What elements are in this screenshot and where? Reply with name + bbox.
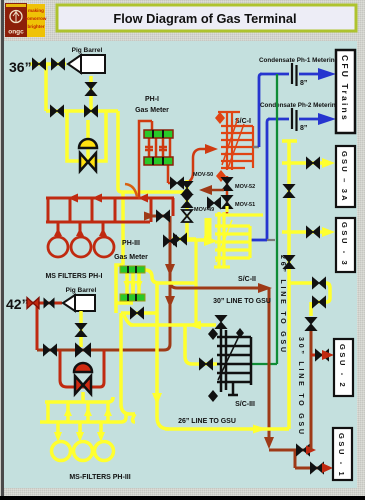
wire manifold riser c xyxy=(91,198,94,222)
wire SC2 outlet blue xyxy=(251,239,267,242)
SC3 top right tick xyxy=(236,328,244,338)
filter vessel F2 xyxy=(71,237,91,257)
valve GSU2 feed xyxy=(316,350,329,361)
arrow into GSU1 xyxy=(322,463,333,473)
arrow up filter3 b xyxy=(84,407,92,416)
wire 30in takeoff curve xyxy=(170,281,262,288)
wire GSU3 branch xyxy=(282,230,322,234)
valve on line B xyxy=(157,211,170,222)
wire manifold riser b xyxy=(69,198,72,222)
valve on 30in bottom run xyxy=(297,445,310,456)
wire meter3 frame left xyxy=(116,265,123,313)
svg-text:GSU – 3A: GSU – 3A xyxy=(340,151,349,203)
wire filter3 header 1 xyxy=(45,397,113,402)
SC3 bottom stub xyxy=(228,382,238,395)
svg-text:MS-FILTERS PH-III: MS-FILTERS PH-III xyxy=(69,474,130,481)
meter3 bar upper xyxy=(120,266,145,273)
SC3 bottom diamond xyxy=(208,390,218,402)
wire pig barrel drop leg xyxy=(89,76,93,111)
SC2 diagonals xyxy=(216,220,232,262)
SC2 drop to line xyxy=(194,240,197,325)
valve 26in riser upper xyxy=(284,185,295,198)
valve on barrel drop xyxy=(76,324,87,337)
svg-text:CFU Trains: CFU Trains xyxy=(340,55,350,122)
wire 36in inlet header xyxy=(30,62,66,66)
SC2 bottom bar xyxy=(214,265,230,268)
arrow down riser lower xyxy=(165,296,175,308)
arrow up filter3 c xyxy=(104,407,112,416)
svg-text:36”: 36” xyxy=(9,59,32,75)
wire filter3 riser a xyxy=(46,402,50,422)
valve meter outlet xyxy=(171,178,184,189)
wire filter3 drop a xyxy=(56,422,60,436)
wire drop to PH-3 header xyxy=(118,111,190,192)
filter vessel F4 xyxy=(52,442,71,461)
SC2 rungs xyxy=(215,226,250,258)
svg-text:MOV-49: MOV-49 xyxy=(194,207,214,213)
wire 26in bottom run xyxy=(165,427,287,431)
GSU-2 box xyxy=(334,339,353,396)
wire MOV string yellow riser xyxy=(172,180,206,240)
svg-text:30” LINE TO GSU: 30” LINE TO GSU xyxy=(297,337,304,437)
ONGC logo red box xyxy=(5,3,27,37)
wire meter tube a xyxy=(148,138,151,157)
bottom black bar xyxy=(0,496,365,500)
svg-text:Condensate Ph-2 Metering: Condensate Ph-2 Metering xyxy=(260,102,340,109)
valve V3 on barrel drop xyxy=(86,83,97,96)
SC1 right bar xyxy=(252,126,254,168)
green line S/C-III outlet to Ph1 xyxy=(251,74,277,364)
arrow down mid riser xyxy=(165,264,175,276)
svg-text:MOV-51: MOV-51 xyxy=(235,202,255,208)
wire 42in drop xyxy=(36,303,39,350)
wire main drop to 26 line xyxy=(157,284,169,429)
arrow down filter3 b xyxy=(76,432,84,442)
SC2 rail left xyxy=(217,212,220,267)
valve MOV-50 xyxy=(182,182,193,195)
arrow Ph1 to CFU xyxy=(318,68,336,80)
wire cv2 outlet drop xyxy=(81,392,85,402)
valve on bypass header xyxy=(131,308,144,319)
svg-text:S/C-II: S/C-II xyxy=(238,276,256,283)
wire GSU2 branch red xyxy=(311,354,323,357)
arrow into SC2 inlet xyxy=(204,236,218,246)
svg-text:PH-I: PH-I xyxy=(145,96,159,103)
wire GSU2 zigzag xyxy=(289,283,330,316)
arrow on line B xyxy=(144,212,156,221)
svg-text:30” LINE TO GSU: 30” LINE TO GSU xyxy=(213,298,271,305)
wire SC2 outlet gray stub xyxy=(267,239,275,241)
wire corner into valve line B xyxy=(146,198,173,222)
arrow left on header line1 third xyxy=(138,194,148,203)
wire blue SC1 outlet stub xyxy=(253,146,259,149)
wire meter inlet top xyxy=(151,121,154,130)
svg-text:brighter: brighter xyxy=(27,24,44,29)
valve MOV-51 xyxy=(222,196,233,209)
wire riser from first valve branch xyxy=(44,64,48,111)
valve SC3 side feed xyxy=(200,359,213,370)
wire Ph1 riser xyxy=(259,74,262,147)
valve V1 xyxy=(33,59,46,70)
valve on riser xyxy=(164,236,177,247)
arrow up filter3 a xyxy=(64,407,72,416)
valve GSU3 branch xyxy=(307,227,320,238)
svg-text:MOV-50: MOV-50 xyxy=(193,172,213,178)
svg-text:MOV-52: MOV-52 xyxy=(235,184,255,190)
wire meter tube b xyxy=(155,138,158,157)
wire meter3 bottom xyxy=(116,283,133,303)
valve side handle xyxy=(208,198,221,209)
right gray strip xyxy=(357,41,365,496)
wire control valve stem xyxy=(86,120,90,160)
wire filter drop a xyxy=(57,222,60,238)
wire 30in riser brown xyxy=(310,331,313,450)
wire filter header line 2 xyxy=(46,221,150,224)
svg-text:GSU - 3: GSU - 3 xyxy=(340,222,349,267)
SC1 rungs xyxy=(221,126,253,168)
wire filter drop b xyxy=(79,222,82,238)
wire lower 36in header xyxy=(46,109,118,113)
SC3 rail right xyxy=(225,330,228,390)
arrow into GSU3A xyxy=(322,158,335,168)
wire 42in inlet xyxy=(27,302,62,305)
wire meter tick b xyxy=(159,147,167,150)
wire GSU1 jog xyxy=(295,450,326,468)
meter bar lower xyxy=(144,157,173,165)
wire meter out curve xyxy=(145,270,196,283)
SC1 rail right xyxy=(231,112,233,170)
GSU-1 box xyxy=(333,428,352,480)
wire meter to SC1 riser xyxy=(183,149,206,183)
control valve CV1 body xyxy=(80,153,96,171)
valve GSU3A branch xyxy=(307,158,320,169)
svg-text:Pig Barrel: Pig Barrel xyxy=(72,47,103,54)
wire 30in bottom run xyxy=(269,449,309,452)
arrow up filter a xyxy=(54,228,62,236)
wire meter tube d xyxy=(169,138,172,157)
SC1 rail left xyxy=(226,112,228,170)
valve GSU1 feed xyxy=(311,463,324,474)
valve on stub xyxy=(174,234,187,245)
wire filter3 riser b xyxy=(66,402,70,422)
svg-text:making: making xyxy=(28,8,44,13)
arrow right 26in run xyxy=(253,425,267,434)
wire filter3 riser d xyxy=(106,402,110,422)
GSU-3A box xyxy=(336,146,355,207)
filter vessel F3 xyxy=(94,237,114,257)
wire SC3 side feed xyxy=(185,325,217,364)
valve MOV-49 xyxy=(182,195,193,208)
arrow down filter3 a xyxy=(54,432,62,442)
arrow Ph2 to CFU xyxy=(318,113,336,125)
control valve CV2 body xyxy=(75,376,91,394)
svg-text:ongc: ongc xyxy=(8,29,24,36)
svg-text:8”: 8” xyxy=(300,80,307,87)
wire SC2 feed stub wide xyxy=(205,218,212,239)
left dark border xyxy=(1,0,4,500)
wire condensate return left xyxy=(206,189,224,192)
svg-text:tomorrow: tomorrow xyxy=(26,16,47,21)
SC3 rail left xyxy=(220,327,223,392)
wire meter left pipe xyxy=(139,121,152,199)
wire bypass left drop xyxy=(121,313,135,422)
svg-text:GSU - 1: GSU - 1 xyxy=(337,433,346,478)
arrow left on SC3 line xyxy=(188,321,201,330)
valve on 42 header left xyxy=(44,345,57,356)
SC1 top diamond xyxy=(215,112,225,124)
wire manifold riser a xyxy=(47,198,50,222)
valve 42in black xyxy=(44,299,54,308)
wire MOV52 string xyxy=(226,176,229,214)
valve 30in top xyxy=(306,318,317,331)
wire line to SC3 top xyxy=(130,323,216,327)
valve 42in red xyxy=(27,298,39,309)
wire Ph1 metering line xyxy=(260,73,322,76)
wire bypass header xyxy=(121,311,157,315)
SC3 top diamond xyxy=(208,328,218,340)
wire filter drop c xyxy=(102,222,105,238)
valve spare open xyxy=(182,210,192,222)
arrow into GSU2 xyxy=(322,350,334,360)
meter3 bar lower xyxy=(120,294,145,301)
wire 26in riser xyxy=(285,141,289,429)
SC3 right bar xyxy=(250,337,253,385)
control valve CV1 dome xyxy=(79,139,97,148)
svg-text:Condensate Ph-1 Metering: Condensate Ph-1 Metering xyxy=(259,57,339,64)
arrow condensate return xyxy=(199,185,212,195)
wire filter3 riser c xyxy=(86,402,90,422)
wire Ph2 riser xyxy=(267,119,270,240)
wire filter3 drop c xyxy=(99,422,103,436)
SC1 diagonals xyxy=(222,118,244,168)
meter bars Ph1 xyxy=(292,63,297,86)
wire cv bypass loop xyxy=(60,350,104,387)
wire filter header line 1 xyxy=(46,197,174,200)
arrow into GSU3 xyxy=(322,227,335,237)
arrow into 30in junction xyxy=(306,446,316,455)
ONGC logo yellow box xyxy=(27,4,45,37)
SC3 inlet valve xyxy=(216,316,227,329)
wire 26in riser top cap xyxy=(282,139,297,143)
svg-text:Gas Meter: Gas Meter xyxy=(135,107,169,114)
filter vessel F1 xyxy=(48,237,68,257)
wire curve into bypass xyxy=(124,315,133,325)
wire control valve bypass loop xyxy=(67,112,106,161)
arrow left on header line1 second xyxy=(92,194,102,203)
valve V2 xyxy=(52,59,65,70)
arrow left on header line1 xyxy=(68,194,78,203)
valve GSU2 zigzag lower xyxy=(313,297,326,308)
arrow 30in line right xyxy=(258,283,272,293)
header band xyxy=(4,0,365,41)
pig barrel PB1 xyxy=(68,47,105,73)
control valve CV2 dome xyxy=(74,363,92,372)
SC3 diagonals xyxy=(218,334,240,380)
meter bars Ph2 xyxy=(292,108,297,131)
valve 26in riser lower xyxy=(284,256,295,269)
wire 30in drop right xyxy=(268,288,271,443)
filter vessel F5 xyxy=(74,442,93,461)
wire meter outlet xyxy=(168,165,172,183)
svg-text:S/C-III: S/C-III xyxy=(235,401,255,408)
GSU-3 box xyxy=(336,218,355,272)
wire valve line B xyxy=(151,215,170,218)
svg-text:Flow Diagram of Gas Terminal: Flow Diagram of Gas Terminal xyxy=(113,11,296,26)
meter bar upper xyxy=(144,130,173,138)
svg-text:Gas Meter: Gas Meter xyxy=(114,254,148,261)
arrow down main drop xyxy=(152,393,162,405)
arrow up filter c xyxy=(99,228,107,236)
wire meter tube c xyxy=(162,138,165,157)
SC2 right bar xyxy=(248,226,251,258)
valve GSU2 zigzag upper xyxy=(313,278,326,289)
svg-text:26” LINE TO GSU: 26” LINE TO GSU xyxy=(178,418,236,425)
svg-text:GSU - 2: GSU - 2 xyxy=(338,344,347,389)
wire GSU3A branch xyxy=(282,161,322,165)
wire barrel drop yellow xyxy=(79,311,83,347)
valve V5 xyxy=(85,106,98,117)
wire orange elbow to manifold xyxy=(125,184,137,197)
wire main riser down xyxy=(37,216,170,350)
arrow 30in drop bottom xyxy=(264,437,274,449)
valve MOV-52 xyxy=(222,178,233,191)
meter3 arrows down xyxy=(124,281,143,290)
wire meter3 tubes xyxy=(127,272,139,295)
wire filter3 drop b xyxy=(78,422,82,436)
svg-text:8”: 8” xyxy=(300,125,307,132)
wire meter feed drop xyxy=(121,192,125,265)
SC3 rungs xyxy=(217,337,251,382)
SC2 feed from SC1 string xyxy=(225,206,228,212)
wire manifold riser d xyxy=(114,198,117,222)
SC1 bottom diamond xyxy=(216,170,226,182)
svg-text:MS FILTERS PH-I: MS FILTERS PH-I xyxy=(45,273,102,280)
CFU Trains box xyxy=(336,50,355,133)
wire Ph2 metering line xyxy=(268,118,322,121)
wire filter3 header 2 xyxy=(40,414,126,422)
wire meter tick a xyxy=(145,147,153,150)
svg-text:Pig Barrel: Pig Barrel xyxy=(66,287,97,294)
SC2 rail right xyxy=(222,212,225,267)
bottom gray strip xyxy=(4,488,365,496)
pig barrel PB2 xyxy=(63,287,97,311)
valve V4 xyxy=(51,106,64,117)
svg-text:42”: 42” xyxy=(6,296,29,312)
SC1 top bar xyxy=(218,111,240,113)
arrow into SC1 inlet xyxy=(205,144,218,154)
arrow down filter3 c xyxy=(97,432,105,442)
arrow up filter b xyxy=(76,228,84,236)
valve on 42 header main xyxy=(76,344,91,357)
svg-text:PH-III: PH-III xyxy=(122,240,140,247)
title box xyxy=(57,5,356,31)
svg-text:26” LINE TO GSU: 26” LINE TO GSU xyxy=(279,255,286,355)
filter vessel F6 xyxy=(95,442,114,461)
SC2 top bar xyxy=(215,213,263,216)
